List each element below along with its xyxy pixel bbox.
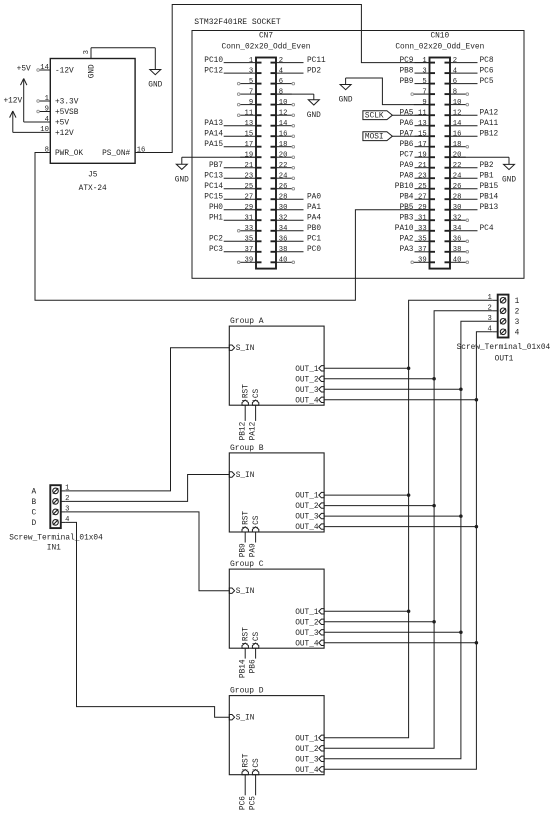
CN10 pin 10 [445,99,469,107]
svg-text:4: 4 [65,516,69,524]
CN7 pin 34 (PB0) [271,225,322,233]
OUT1 pin 1 [487,294,497,302]
svg-text:8: 8 [279,88,283,96]
svg-text:PA14: PA14 [204,130,223,138]
Group D pin OUT_2 [295,746,324,754]
svg-text:OUT_1: OUT_1 [295,609,319,617]
wire Group A OUT_1 to bus [324,367,409,369]
svg-text:11: 11 [418,109,427,117]
CN7 pin 27 (PC15) [204,193,261,201]
svg-text:1: 1 [515,298,520,306]
svg-text:17: 17 [245,141,254,149]
svg-text:2: 2 [279,57,283,65]
wire CN7 pin 19 to GND [182,156,256,158]
wire PWR_OK from J5 pin 8 to CN10 pin 29 (PB5) [35,153,430,301]
svg-text:D: D [31,520,36,528]
svg-text:PB15: PB15 [480,183,499,191]
CN7 pin 24 [271,172,295,180]
svg-text:30: 30 [279,204,288,212]
svg-text:16: 16 [453,130,462,138]
svg-text:PA3: PA3 [399,246,413,254]
junction bus 3 / Group C OUT_3 [459,631,463,635]
svg-text:OUT_2: OUT_2 [295,376,319,384]
svg-text:PB1: PB1 [480,172,494,180]
svg-text:PC13: PC13 [204,172,223,180]
junction bus 2 / Group A OUT_2 [432,377,436,381]
svg-text:!RST: !RST [243,511,251,530]
svg-text:10: 10 [40,126,49,134]
svg-text:PH0: PH0 [209,204,223,212]
svg-text:28: 28 [453,193,462,201]
hierarchical sheet Group B [229,444,324,532]
node label 1 (OUT1) [515,298,520,306]
CN7 pin 17 (PA15) [204,141,261,149]
CN7 pin 21 (PB7) [209,162,262,170]
svg-text:20: 20 [453,151,462,159]
Group B pin S_IN [229,472,254,480]
svg-text:PC8: PC8 [480,57,494,65]
svg-text:13: 13 [245,120,254,128]
wire bus OUT_1: OUT1 pin 1 down to Group D OUT_1 [324,300,493,738]
J5 pin 16 (PS_ON#) [102,146,145,158]
svg-text:PB8: PB8 [399,67,413,75]
net label MOSI (to CN10 PA7) [363,132,430,142]
svg-text:39: 39 [418,257,427,265]
svg-text:22: 22 [453,162,462,170]
CN10 pin 37 (PA3) [399,246,435,254]
wire IN1 pin 2 to Group B S_IN [66,475,230,502]
svg-text:39: 39 [245,257,254,265]
svg-text:24: 24 [279,172,288,180]
svg-text:19: 19 [245,151,254,159]
CN10 pin 28 (PB14) [445,193,499,201]
ground symbol GND (CN7 pin 19) [175,157,189,184]
svg-text:PB12: PB12 [480,130,499,138]
svg-text:14: 14 [453,120,462,128]
CN7 pin 5 [237,78,261,86]
node label 2 (OUT1) [515,308,520,316]
CN10 pin 15 (PA7) [399,130,435,138]
svg-text:26: 26 [453,183,462,191]
svg-text:PB10: PB10 [395,183,414,191]
junction bus 3 / Group A OUT_3 [459,388,463,392]
svg-text:29: 29 [418,204,427,212]
svg-text:PC10: PC10 [204,57,223,65]
label PA12 (Group A !CS) [250,421,258,440]
CN10 pin 17 (PB6) [399,141,435,149]
svg-text:1: 1 [487,294,491,302]
svg-text:OUT1: OUT1 [495,355,514,363]
Group B pin !CS [252,515,261,532]
wire Group C OUT_4 to bus [324,642,476,644]
svg-text:1: 1 [249,57,253,65]
svg-text:3: 3 [487,315,491,323]
svg-text:PB9: PB9 [239,543,247,557]
CN7 pin 12 [271,109,295,117]
wire Group C !RST stub [244,648,246,658]
svg-text:2: 2 [65,495,69,503]
hierarchical sheet Group C [229,560,324,648]
OUT1 pin 3 [487,315,497,323]
svg-text:OUT_3: OUT_3 [295,387,319,395]
svg-text:Conn_02x20_Odd_Even: Conn_02x20_Odd_Even [222,44,311,52]
svg-text:1: 1 [45,95,49,103]
Group C pin !CS [252,631,261,648]
CN7 pin 40 [271,257,295,265]
svg-text:PC0: PC0 [307,246,321,254]
svg-text:OUT_2: OUT_2 [295,746,319,754]
svg-text:2: 2 [515,308,520,316]
ground symbol GND (CN10 pin 20) [502,157,516,184]
wire IN1 pin 4 to Group D S_IN [66,522,230,717]
svg-text:GND: GND [339,97,353,105]
svg-text:3: 3 [65,506,69,514]
ground symbol GND (CN10 pin 9) [339,78,353,105]
svg-text:PC7: PC7 [399,151,413,159]
svg-text:PB0: PB0 [307,225,321,233]
wire CN10 pin 20 to GND [450,156,509,158]
CN7 pin 20 [271,151,295,159]
IN1 pin 2 [61,495,70,503]
wire Group A !CS stub [255,405,257,421]
svg-text:+12V: +12V [3,97,22,105]
node label A (IN1) [31,489,36,497]
svg-text:37: 37 [245,246,254,254]
svg-text:GND: GND [307,112,321,120]
svg-text:+5V: +5V [17,65,31,73]
svg-text:-12V: -12V [55,68,74,76]
J5 pin 14 (-12V) [37,64,74,76]
svg-text:PA0: PA0 [307,193,321,201]
wire Group B OUT_3 to bus [324,515,461,517]
node label C (IN1) [31,510,36,518]
CN10 pin 1 (PC9) [399,57,435,65]
svg-text:2: 2 [487,305,491,313]
ground symbol GND (CN7 pin 8) [307,94,321,120]
label PB14 (Group C !RST) [239,659,247,678]
CN10 pin 12 (PA12) [445,109,499,117]
Group B pin OUT_3 [295,513,324,521]
svg-text:9: 9 [422,99,426,107]
svg-text:PC6: PC6 [239,796,247,810]
svg-text:19: 19 [418,151,427,159]
CN10 pin 22 (PB2) [445,162,494,170]
svg-text:34: 34 [453,225,462,233]
svg-text:S_IN: S_IN [236,345,255,353]
svg-text:15: 15 [245,130,254,138]
wire Group D !CS stub [255,775,257,796]
svg-text:PA12: PA12 [250,421,258,440]
power symbol +5V [17,65,31,122]
svg-text:31: 31 [245,214,254,222]
CN10 pin 6 (PC5) [445,78,494,86]
svg-text:8: 8 [453,88,457,96]
CN10 pin 27 (PB4) [399,193,435,201]
svg-text:PC2: PC2 [209,236,223,244]
CN10 pin 32 [445,214,469,222]
CN10 pin 36 [445,236,469,244]
CN7 pin 39 [237,257,261,265]
junction bus 2 / Group C OUT_2 [432,620,436,624]
CN10 pin 3 (PB8) [399,67,435,75]
Group C pin S_IN [229,588,254,596]
svg-text:Screw_Terminal_01x04: Screw_Terminal_01x04 [457,344,550,352]
svg-text:14: 14 [40,64,49,72]
wire +12V to J5 pin 10 [13,131,51,133]
svg-text:ATX-24: ATX-24 [79,185,107,193]
svg-text:5: 5 [249,78,253,86]
svg-text:15: 15 [418,130,427,138]
CN10 pin 16 (PB12) [445,130,499,138]
CN10 pin 5 (PB9) [399,78,435,86]
svg-text:31: 31 [418,214,427,222]
IN1 pin 3 [61,506,70,514]
CN7 pin 26 [271,183,295,191]
svg-text:Conn_02x20_Odd_Even: Conn_02x20_Odd_Even [395,44,484,52]
svg-text:7: 7 [422,88,426,96]
Group A pin !CS [252,388,261,405]
svg-text:9: 9 [249,99,253,107]
wire Group C !CS stub [255,648,257,658]
svg-text:23: 23 [418,172,427,180]
wire Group A OUT_4 to bus [324,399,476,401]
svg-text:PB7: PB7 [209,162,223,170]
svg-text:23: 23 [245,172,254,180]
wire bus OUT_2: OUT1 pin 2 down to Group D OUT_2 [324,311,493,749]
CN10 pin 4 (PC6) [445,67,494,75]
svg-text:22: 22 [279,162,288,170]
svg-text:OUT_4: OUT_4 [295,524,319,532]
Group D pin !CS [252,758,261,775]
connector CN7 (Conn_02x20_Odd_Even) [222,32,311,268]
CN7 pin 28 (PA0) [271,193,322,201]
svg-text:18: 18 [453,141,462,149]
Group A pin OUT_3 [295,387,324,395]
CN10 pin 21 (PA9) [399,162,435,170]
CN7 pin 31 (PH1) [209,214,262,222]
svg-text:13: 13 [418,120,427,128]
svg-text:2: 2 [453,57,457,65]
svg-text:PB3: PB3 [399,214,413,222]
svg-text:PA4: PA4 [307,214,321,222]
svg-text:OUT_1: OUT_1 [295,493,319,501]
svg-text:4: 4 [515,329,520,337]
hierarchical sheet Group A [229,317,324,405]
J5 pin 9 (+5VSB) [37,105,79,117]
svg-text:PB6: PB6 [399,141,413,149]
svg-text:OUT_1: OUT_1 [295,366,319,374]
CN10 pin 34 (PC4) [445,225,494,233]
CN7 pin 30 (PA1) [271,204,322,212]
OUT1 pin 2 [487,305,497,313]
svg-text:SCLK: SCLK [365,113,384,121]
CN7 pin 8 [271,88,292,96]
svg-text:B: B [31,499,36,507]
wire Group B OUT_2 to bus [324,505,434,507]
IN1 pin 4 [61,516,70,524]
screw terminal IN1 (Screw_Terminal_01x04) [9,485,103,552]
svg-text:3: 3 [515,319,520,327]
svg-text:OUT_2: OUT_2 [295,619,319,627]
svg-text:OUT_3: OUT_3 [295,756,319,764]
label PB12 (Group A !RST) [239,421,247,440]
svg-text:PB6: PB6 [250,659,258,673]
svg-text:11: 11 [245,109,254,117]
STM32F401RE SOCKET outline box [192,31,524,279]
CN7 pin 32 (PA4) [271,214,322,222]
svg-text:PA12: PA12 [480,109,499,117]
Group C pin OUT_1 [295,609,324,617]
wire Group A OUT_3 to bus [324,388,461,390]
svg-text:25: 25 [245,183,254,191]
svg-text:PA11: PA11 [480,120,499,128]
label PB9 (Group B !RST) [239,543,247,557]
Group B pin !RST [242,511,251,532]
svg-text:!RST: !RST [243,627,251,646]
Group C pin OUT_3 [295,630,324,638]
wire IN1 pin 3 to Group C S_IN [66,512,230,591]
wire Group C OUT_3 to bus [324,631,461,633]
wire Group B !CS stub [255,532,257,543]
svg-text:PA8: PA8 [399,172,413,180]
wire Group A !RST stub [244,405,246,421]
svg-text:PA6: PA6 [399,120,413,128]
Group A pin OUT_2 [295,376,324,384]
Group B pin OUT_4 [295,524,324,532]
screw terminal OUT1 (Screw_Terminal_01x04) [457,295,550,364]
svg-text:20: 20 [279,151,288,159]
Group D pin !RST [242,753,251,774]
power symbol +12V [3,97,22,132]
svg-text:PC12: PC12 [204,67,223,75]
svg-text:6: 6 [453,78,457,86]
svg-text:S_IN: S_IN [236,588,255,596]
svg-text:GND: GND [148,82,162,90]
CN10 pin 20 [445,151,466,159]
CN10 pin 19 (PC7) [399,151,435,159]
Group A pin S_IN [229,345,254,353]
svg-text:1: 1 [65,485,69,493]
CN10 pin 24 (PB1) [445,172,494,180]
Group D pin OUT_1 [295,735,324,743]
CN7 pin 35 (PC2) [209,236,262,244]
Group C pin !RST [242,627,251,648]
svg-text:25: 25 [418,183,427,191]
svg-text:24: 24 [453,172,462,180]
node label 3 (OUT1) [515,319,520,327]
svg-text:!RST: !RST [243,753,251,772]
wire PS_ON# from J5 pin 16 to CN10 pin 1 (PC9) [135,5,429,153]
junction bus 2 / Group B OUT_2 [432,504,436,508]
CN10 pin 9 [414,99,435,107]
svg-text:1: 1 [422,57,426,65]
label PA9 (Group B !CS) [250,543,258,557]
CN7 pin 22 [271,162,295,170]
svg-text:21: 21 [245,162,254,170]
svg-text:Screw_Terminal_01x04: Screw_Terminal_01x04 [9,534,103,542]
svg-text:OUT_4: OUT_4 [295,640,319,648]
svg-text:PA13: PA13 [204,120,223,128]
CN10 pin 13 (PA6) [399,120,435,128]
wire CN10 pin 9 to GND [346,78,430,105]
svg-text:17: 17 [418,141,427,149]
junction bus 4 / Group C OUT_4 [475,641,479,645]
svg-text:9: 9 [45,105,49,113]
svg-text:32: 32 [279,214,288,222]
CN7 pin 16 [271,130,295,138]
svg-text:38: 38 [279,246,288,254]
svg-text:5: 5 [422,78,426,86]
svg-text:40: 40 [453,257,462,265]
CN10 pin 29 (PB5) [399,204,435,212]
svg-text:GND: GND [175,176,189,184]
J5 pin 8 (PWR_OK) [45,146,84,158]
svg-text:21: 21 [418,162,427,170]
svg-text:!CS: !CS [253,758,261,772]
label PC6 (Group D !RST) [239,796,247,810]
svg-text:OUT_2: OUT_2 [295,503,319,511]
CN7 pin 15 (PA14) [204,130,261,138]
svg-text:OUT_4: OUT_4 [295,767,319,775]
CN7 pin 13 (PA13) [204,120,261,128]
svg-text:10: 10 [453,99,462,107]
CN7 pin 29 (PH0) [209,204,262,212]
svg-text:36: 36 [279,236,288,244]
CN10 pin 23 (PA8) [399,172,435,180]
svg-text:+5VSB: +5VSB [55,109,79,117]
node label 4 (OUT1) [515,329,520,337]
OUT1 pin 4 [487,326,497,334]
svg-text:Group A: Group A [230,317,264,326]
net label SCLK (to CN10 PA5) [363,111,430,121]
wire IN1 pin 1 to Group A S_IN [66,348,230,491]
svg-text:38: 38 [453,246,462,254]
J5 pin 10 (+12V) [40,126,74,138]
CN7 pin 6 [271,78,295,86]
label PB6 (Group C !CS) [250,659,258,673]
svg-text:S_IN: S_IN [236,472,255,480]
svg-text:10: 10 [279,99,288,107]
svg-text:PD2: PD2 [307,67,321,75]
CN10 pin 26 (PB15) [445,183,499,191]
svg-text:40: 40 [279,257,288,265]
svg-text:OUT_3: OUT_3 [295,630,319,638]
svg-text:PA7: PA7 [399,130,413,138]
Group D pin OUT_4 [295,767,324,775]
wire Group B OUT_4 to bus [324,526,476,528]
svg-text:34: 34 [279,225,288,233]
svg-text:PB14: PB14 [480,193,499,201]
wire +5V to J5 pin 4 [24,121,51,123]
svg-text:33: 33 [418,225,427,233]
svg-text:J5: J5 [88,171,98,179]
Group C pin OUT_2 [295,619,324,627]
CN7 pin 23 (PC13) [204,172,261,180]
CN7 pin 38 (PC0) [271,246,322,254]
svg-text:26: 26 [279,183,288,191]
svg-text:PA2: PA2 [399,236,413,244]
svg-text:PB12: PB12 [239,421,247,440]
svg-text:27: 27 [418,193,427,201]
svg-text:12: 12 [453,109,462,117]
svg-text:18: 18 [279,141,288,149]
svg-text:+5V: +5V [55,120,69,128]
junction bus 1 / Group B OUT_1 [407,493,411,497]
svg-text:PA10: PA10 [395,225,414,233]
CN10 pin 11 (PA5) [399,109,435,117]
CN7 pin 18 [271,141,295,149]
CN7 pin 33 [237,225,261,233]
